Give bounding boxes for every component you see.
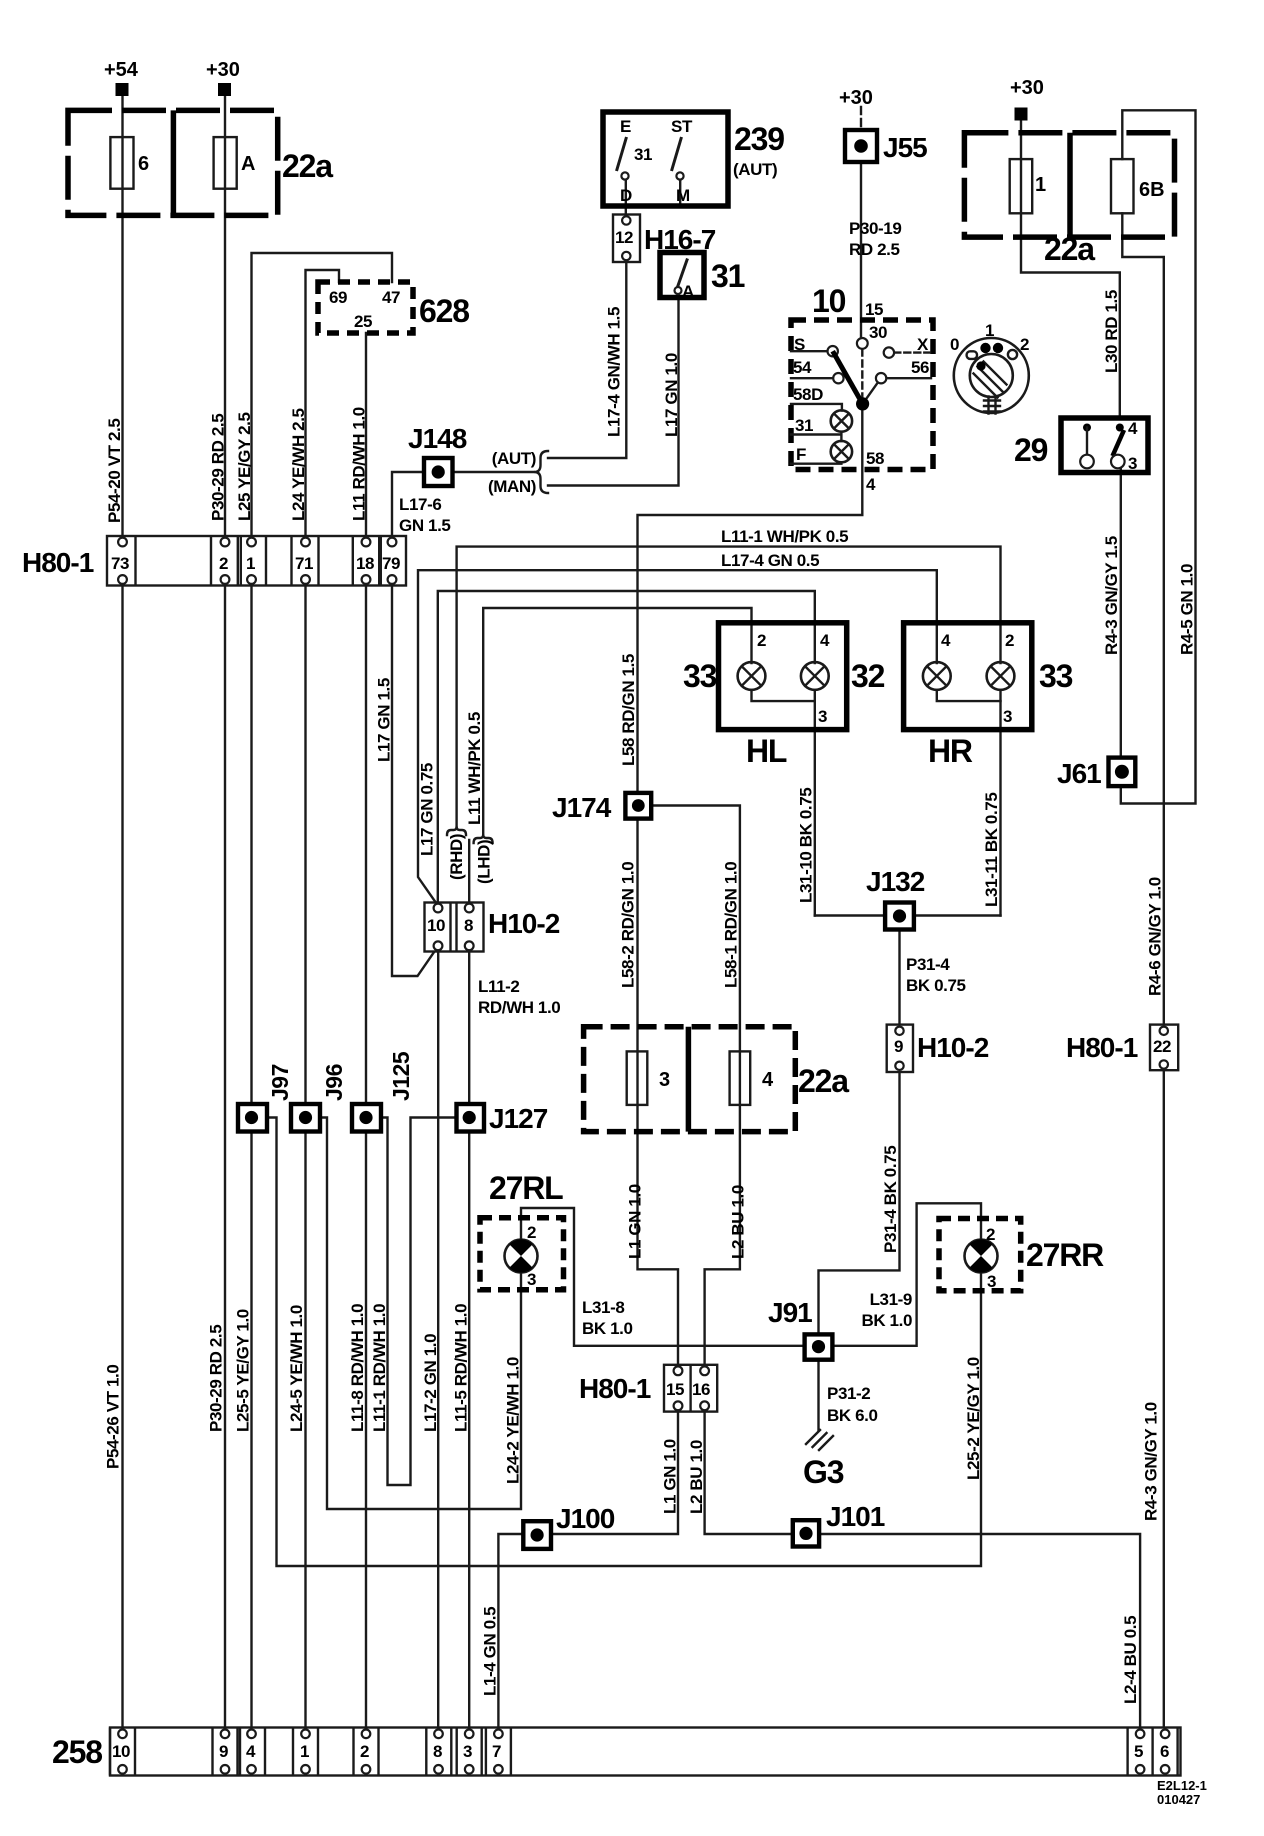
svg-text:2: 2 [1005, 631, 1014, 650]
svg-text:1: 1 [1035, 174, 1046, 196]
svg-text:HR: HR [928, 733, 973, 769]
fuse box 22a top-right [964, 133, 1174, 237]
svg-text:73: 73 [111, 554, 129, 573]
svg-text:628: 628 [419, 293, 469, 329]
svg-text:239: 239 [734, 121, 784, 157]
svg-text:L17-4 GN/WH 1.5: L17-4 GN/WH 1.5 [605, 307, 624, 437]
wire R4-3/R4-5: relay 29 pin 3 through J61, right edge loop to fuse 6B top [1121, 110, 1196, 803]
svg-text:A: A [682, 282, 694, 301]
svg-text:F: F [796, 445, 806, 464]
svg-text:18: 18 [356, 554, 374, 573]
svg-text:47: 47 [382, 288, 400, 307]
fuse 4 [730, 1051, 751, 1105]
svg-text:58D: 58D [793, 385, 823, 404]
svg-text:30: 30 [869, 323, 887, 342]
wire J148 right to AUT/MAN brace [453, 471, 535, 473]
svg-text:(AUT): (AUT) [733, 160, 777, 179]
relay 29 [1061, 418, 1148, 473]
relay box 628 [318, 282, 413, 333]
junction J174 [625, 793, 651, 819]
svg-text:1: 1 [985, 321, 994, 340]
junction J148 [424, 458, 453, 486]
svg-text:L31-8: L31-8 [582, 1298, 624, 1317]
svg-text:29: 29 [1014, 432, 1048, 468]
svg-text:4: 4 [1128, 419, 1138, 438]
svg-text:56: 56 [911, 358, 929, 377]
svg-text:0: 0 [950, 335, 959, 354]
wire P31-4: J132 to H10-2 pin 9 [898, 930, 900, 1027]
wire LHD branch: LHD brace up, right to HL lamp pin 2 [483, 608, 751, 835]
connector H10-2 pin 9 [887, 1025, 913, 1072]
svg-text:L2 BU 1.0: L2 BU 1.0 [729, 1185, 748, 1259]
wire L11: 628 pin 25 to H80-1 pin 18 through J125 to 258 pin 2 [365, 333, 367, 1733]
junction J125 [352, 1104, 381, 1132]
svg-text:RD/WH 1.0: RD/WH 1.0 [478, 998, 560, 1017]
svg-text:22a: 22a [1044, 231, 1095, 267]
svg-text:R4-6 GN/GY 1.0: R4-6 GN/GY 1.0 [1146, 877, 1165, 996]
svg-text:L17 GN 1.5: L17 GN 1.5 [375, 678, 394, 762]
fuse 6B [1111, 159, 1134, 213]
svg-text:L17-4 GN 0.5: L17-4 GN 0.5 [721, 551, 819, 570]
wire J91 top to P31-4 corner [819, 1066, 900, 1334]
svg-text:3: 3 [659, 1069, 670, 1091]
svg-text:L31-11 BK 0.75: L31-11 BK 0.75 [982, 793, 1001, 907]
svg-text:10: 10 [112, 1742, 130, 1761]
svg-text:BK 1.0: BK 1.0 [582, 1319, 633, 1338]
svg-text:L24 YE/WH 2.5: L24 YE/WH 2.5 [289, 408, 308, 521]
svg-text:L11-2: L11-2 [478, 977, 519, 996]
svg-text:L25-2 YE/GY 1.0: L25-2 YE/GY 1.0 [964, 1357, 983, 1480]
svg-text:L2 BU 1.0: L2 BU 1.0 [687, 1440, 706, 1514]
wire AUT line to H16-7 pin 12 [548, 220, 626, 458]
brace AUT/MAN split [535, 451, 549, 493]
svg-text:L24-5 YE/WH 1.0: L24-5 YE/WH 1.0 [287, 1305, 306, 1432]
svg-text:3: 3 [527, 1270, 536, 1289]
svg-text:27RR: 27RR [1026, 1237, 1104, 1273]
svg-text:D: D [620, 186, 632, 205]
lamp box 27RR [939, 1219, 1021, 1291]
svg-text:4: 4 [820, 631, 830, 650]
svg-text:15: 15 [865, 300, 883, 319]
connector H80-1 pins 15/16 [664, 1365, 717, 1412]
junction J91 [805, 1334, 833, 1359]
junction J97 [238, 1104, 267, 1132]
svg-text:010427: 010427 [1157, 1792, 1200, 1807]
svg-text:H80-1: H80-1 [22, 547, 94, 578]
wire L17-6: J148 left to H80-1 pin 79, then L17 GN 1.5 down to H10-2 pin 10 [392, 472, 438, 976]
svg-text:L17-2 GN 1.0: L17-2 GN 1.0 [421, 1334, 440, 1432]
connector H10-2 pins 10/8 [425, 903, 484, 952]
svg-text:ST: ST [671, 117, 693, 136]
wire R4-6: fuse 6B bottom, jog right, down through H80-1 pin 22 to 258 pin 6 [1122, 213, 1164, 1733]
junction J100 [523, 1521, 551, 1549]
svg-text:2: 2 [757, 631, 766, 650]
svg-text:P31-4 BK 0.75: P31-4 BK 0.75 [881, 1146, 900, 1253]
svg-text:X: X [917, 335, 929, 354]
svg-text:4: 4 [762, 1069, 774, 1091]
svg-text:BK 0.75: BK 0.75 [906, 976, 966, 995]
svg-text:8: 8 [464, 916, 473, 935]
svg-text:J148: J148 [408, 423, 467, 454]
svg-text:HL: HL [746, 733, 787, 769]
svg-text:L11-8 RD/WH 1.0: L11-8 RD/WH 1.0 [348, 1304, 367, 1432]
svg-text:L11 RD/WH 1.0: L11 RD/WH 1.0 [350, 407, 369, 521]
fuse box 22a top-left [68, 110, 278, 215]
svg-text:6: 6 [1160, 1742, 1169, 1761]
fuse 6 [110, 137, 133, 189]
wire P31-2: J91 down to ground G3 [817, 1360, 819, 1430]
svg-text:L25-5 YE/GY 1.0: L25-5 YE/GY 1.0 [234, 1309, 253, 1432]
svg-text:16: 16 [692, 1380, 710, 1399]
svg-text:P31-2: P31-2 [827, 1384, 870, 1403]
svg-text:5: 5 [1134, 1742, 1143, 1761]
svg-text:2: 2 [1020, 335, 1029, 354]
svg-text:33: 33 [683, 658, 717, 694]
svg-text:H16-7: H16-7 [644, 224, 716, 255]
svg-text:L58-1 RD/GN 1.0: L58-1 RD/GN 1.0 [722, 862, 741, 988]
fuse 1 [1010, 159, 1032, 213]
svg-text:L17 GN 0.75: L17 GN 0.75 [418, 763, 437, 856]
lamp box 27RL [480, 1218, 564, 1290]
terminal +30 top-right [1015, 108, 1028, 121]
svg-text:G3: G3 [803, 1454, 844, 1490]
wire P30 feed: +30 terminal through fuse A to H80-1 pin 2 to 258 pin 9 [224, 96, 226, 1733]
svg-text:L31-9: L31-9 [870, 1290, 912, 1309]
svg-text:H10-2: H10-2 [488, 908, 560, 939]
wire HR lamp 32 bottom link [937, 690, 1001, 701]
ground G3 [806, 1430, 833, 1450]
svg-text:J97: J97 [267, 1064, 293, 1101]
brace RHD [447, 827, 466, 836]
svg-text:L11-1 RD/WH 1.0: L11-1 RD/WH 1.0 [370, 1304, 389, 1432]
svg-text:15: 15 [666, 1380, 684, 1399]
svg-text:J127: J127 [489, 1103, 548, 1134]
svg-text:22a: 22a [282, 148, 333, 184]
svg-text:33: 33 [1039, 658, 1073, 694]
wire L31-11: HR pin 3 down to J132 [999, 690, 1001, 916]
svg-text:1: 1 [300, 1742, 309, 1761]
svg-text:54: 54 [793, 358, 812, 377]
box 31 switch [660, 253, 704, 298]
svg-text:R4-3 GN/GY 1.0: R4-3 GN/GY 1.0 [1142, 1402, 1161, 1521]
junction J55 [845, 130, 877, 162]
svg-text:+30: +30 [1010, 77, 1044, 99]
svg-text:22a: 22a [798, 1063, 849, 1099]
svg-text:4: 4 [941, 631, 951, 650]
junction J101 [793, 1520, 819, 1546]
svg-text:H80-1: H80-1 [579, 1373, 651, 1404]
svg-text:R4-3 GN/GY 1.5: R4-3 GN/GY 1.5 [1102, 536, 1121, 655]
junction J132 [885, 903, 914, 930]
svg-text:31: 31 [711, 258, 745, 294]
svg-text:+54: +54 [104, 59, 139, 81]
svg-text:L11 WH/PK 0.5: L11 WH/PK 0.5 [465, 712, 484, 825]
svg-text:(AUT): (AUT) [492, 449, 536, 468]
svg-text:L25 YE/GY 2.5: L25 YE/GY 2.5 [235, 412, 254, 521]
svg-text:L11-5 RD/WH 1.0: L11-5 RD/WH 1.0 [452, 1304, 471, 1432]
svg-text:31: 31 [795, 416, 813, 435]
svg-text:2: 2 [986, 1225, 995, 1244]
svg-text:J61: J61 [1057, 758, 1101, 789]
wire MAN line to switch 31 pin A [548, 294, 679, 486]
wire L58-1: J174 right to fuse 4, jog, H80-1 pin 16, right to J101, 258 pin 5 [651, 806, 1140, 1734]
svg-text:J101: J101 [826, 1501, 885, 1532]
svg-text:H10-2: H10-2 [917, 1032, 989, 1063]
svg-text:31: 31 [634, 145, 652, 164]
svg-text:27RL: 27RL [489, 1170, 563, 1206]
wire 27RR pin 2 up, left, down to J91 right [832, 1203, 981, 1346]
svg-text:J125: J125 [388, 1051, 414, 1101]
wire 239 pin D stub [625, 180, 627, 215]
svg-text:P30-29 RD 2.5: P30-29 RD 2.5 [209, 414, 228, 521]
svg-text:2: 2 [527, 1223, 536, 1242]
svg-text:J55: J55 [883, 132, 927, 163]
wire 239 pin M stub [679, 180, 681, 207]
svg-text:BK 1.0: BK 1.0 [861, 1311, 912, 1330]
svg-text:3: 3 [1128, 454, 1137, 473]
svg-text:12: 12 [615, 228, 633, 247]
svg-text:L17-6: L17-6 [399, 495, 441, 514]
svg-text:10: 10 [812, 283, 846, 319]
wire L11-1 RD/WH: J125 branch down, U-turn, up to J127 [381, 1118, 457, 1486]
wire L17-2: H10-2 pin 10 down to 258 pin 8 [437, 947, 439, 1733]
svg-text:R4-5 GN 1.0: R4-5 GN 1.0 [1178, 564, 1197, 655]
svg-text:GN 1.5: GN 1.5 [399, 516, 450, 535]
svg-text:22: 22 [1153, 1037, 1171, 1056]
svg-text:258: 258 [52, 1734, 102, 1770]
junction J127 [457, 1104, 485, 1132]
svg-text:L58 RD/GN 1.5: L58 RD/GN 1.5 [619, 654, 638, 766]
wire P30-19: J55 down to ignition switch 10 [860, 162, 862, 338]
svg-text:58: 58 [866, 449, 884, 468]
wire +30 dashed feed above J55 [860, 107, 862, 130]
wire L17 GN 0.75: H10-2 pin 10 up to HL lamp pin 4 [438, 591, 815, 906]
svg-text:H80-1: H80-1 [1066, 1032, 1138, 1063]
svg-text:79: 79 [382, 554, 400, 573]
wire L24-2: J96 branch down, right, up to 27RL pin 3 [320, 1118, 521, 1510]
svg-text:L17 GN 1.0: L17 GN 1.0 [662, 353, 681, 437]
svg-text:2: 2 [360, 1742, 369, 1761]
svg-text:J174: J174 [552, 792, 612, 823]
box 239 ignition switch AUT [603, 112, 728, 206]
connector H80-1 pin 22 [1150, 1025, 1178, 1071]
svg-text:L24-2 YE/WH 1.0: L24-2 YE/WH 1.0 [504, 1357, 523, 1484]
svg-text:(LHD): (LHD) [475, 840, 494, 884]
svg-text:9: 9 [219, 1742, 228, 1761]
wire L11-1 WH/PK: RHD brace up, right, to HR lamp pin 2 [457, 547, 1001, 827]
svg-text:L11-1 WH/PK 0.5: L11-1 WH/PK 0.5 [721, 527, 848, 546]
svg-text:6: 6 [138, 153, 149, 175]
svg-text:1: 1 [246, 554, 255, 573]
wire L31-10: HL pin 3 down to J132 [814, 690, 816, 916]
svg-text:(MAN): (MAN) [488, 477, 536, 496]
wire P54 feed: +54 terminal through fuse 6 to H80-1 pin 73 to 258 pin 10 [121, 96, 123, 1733]
svg-text:A: A [241, 153, 255, 175]
svg-text:L1-4 GN 0.5: L1-4 GN 0.5 [481, 1607, 500, 1696]
svg-text:8: 8 [433, 1742, 442, 1761]
svg-text:E2L12-1: E2L12-1 [1157, 1778, 1207, 1793]
svg-text:J91: J91 [768, 1297, 812, 1328]
svg-text:S: S [794, 335, 805, 354]
svg-text:4: 4 [246, 1742, 256, 1761]
svg-text:25: 25 [354, 312, 372, 331]
lamp box HL [719, 623, 847, 730]
svg-text:P31-4: P31-4 [906, 955, 950, 974]
svg-text:L1 GN 1.0: L1 GN 1.0 [626, 1184, 645, 1259]
svg-text:3: 3 [987, 1272, 996, 1291]
svg-text:+30: +30 [839, 87, 873, 109]
svg-text:L30 RD 1.5: L30 RD 1.5 [1102, 290, 1121, 373]
svg-text:L31-10 BK 0.75: L31-10 BK 0.75 [797, 788, 816, 903]
connector H16-7 pin 12 [613, 215, 640, 263]
svg-text:2: 2 [219, 554, 228, 573]
svg-text:E: E [620, 117, 631, 136]
connector strip 258 [110, 1728, 1181, 1776]
svg-text:(RHD): (RHD) [447, 834, 466, 880]
fuse A [214, 137, 237, 189]
junction J96 [291, 1104, 320, 1132]
fuse box 22a middle [584, 1027, 796, 1132]
terminal +30 left [218, 83, 231, 96]
wire 27RL pin 2 up, right, down to J91 horizontal [521, 1208, 805, 1346]
brace LHD [474, 835, 493, 844]
svg-text:P30-29 RD 2.5: P30-29 RD 2.5 [207, 1325, 226, 1432]
svg-text:32: 32 [851, 658, 885, 694]
svg-text:P30-19: P30-19 [849, 219, 901, 238]
svg-text:3: 3 [818, 707, 827, 726]
svg-text:P54-20 VT 2.5: P54-20 VT 2.5 [105, 419, 124, 523]
junction J61 [1109, 758, 1136, 787]
svg-text:BK 6.0: BK 6.0 [827, 1406, 878, 1425]
svg-text:J100: J100 [556, 1503, 615, 1534]
svg-text:3: 3 [463, 1742, 472, 1761]
svg-text:L1 GN 1.0: L1 GN 1.0 [661, 1439, 680, 1514]
svg-text:M: M [676, 186, 690, 205]
connector H80-1 left row [107, 536, 406, 586]
wire L17-4 GN: H10-2 pin 10 diagonal up, right to HR lamp pin 4 [418, 570, 937, 906]
svg-text:4: 4 [866, 475, 876, 494]
svg-text:J96: J96 [321, 1064, 347, 1101]
terminal +54 [116, 83, 129, 96]
wire L24: 628 pin 69 to H80-1 pin 71 through J96 to 258 pin 1 [306, 270, 340, 1733]
svg-text:+30: +30 [206, 59, 240, 81]
svg-text:9: 9 [894, 1037, 903, 1056]
lamp box HR [904, 623, 1032, 730]
svg-text:6B: 6B [1139, 179, 1165, 201]
wire HL lamp 33 bottom link [752, 690, 815, 701]
svg-text:3: 3 [1003, 707, 1012, 726]
fuse 3 [627, 1051, 648, 1105]
svg-text:7: 7 [492, 1742, 501, 1761]
ignition key rotary symbol [954, 338, 1029, 414]
wire L30: +30 terminal through fuse 1, jog right, down to relay 29 pin 4 [1021, 121, 1120, 419]
wire L58: switch pin 58/4 down, left, to J174, fuse 3, jog, H80-1 pin 15, to J100, 258 pin 7 [498, 404, 862, 1733]
wire L11-2/L11-5: brace to H10-2 pin 8 through J127 to 258 pin 3 [468, 840, 470, 1733]
svg-text:L2-4 BU 0.5: L2-4 BU 0.5 [1121, 1616, 1140, 1704]
wire J132 horizontal [815, 914, 1001, 916]
svg-text:71: 71 [295, 554, 313, 573]
svg-text:L58-2 RD/GN 1.0: L58-2 RD/GN 1.0 [619, 862, 638, 988]
svg-text:P54-26 VT 1.0: P54-26 VT 1.0 [104, 1365, 123, 1469]
svg-text:10: 10 [427, 916, 445, 935]
ignition switch box 10 [791, 320, 933, 470]
svg-text:RD 2.5: RD 2.5 [849, 240, 900, 259]
wire L25-2: J97 branch down, right along bottom, up to 27RR pin 3 [267, 1118, 981, 1567]
svg-text:69: 69 [329, 288, 347, 307]
svg-text:J132: J132 [866, 866, 925, 897]
wire L25: 628 pin 47 to H80-1 pin 1 through J97 to 258 pin 4 [252, 253, 393, 1733]
